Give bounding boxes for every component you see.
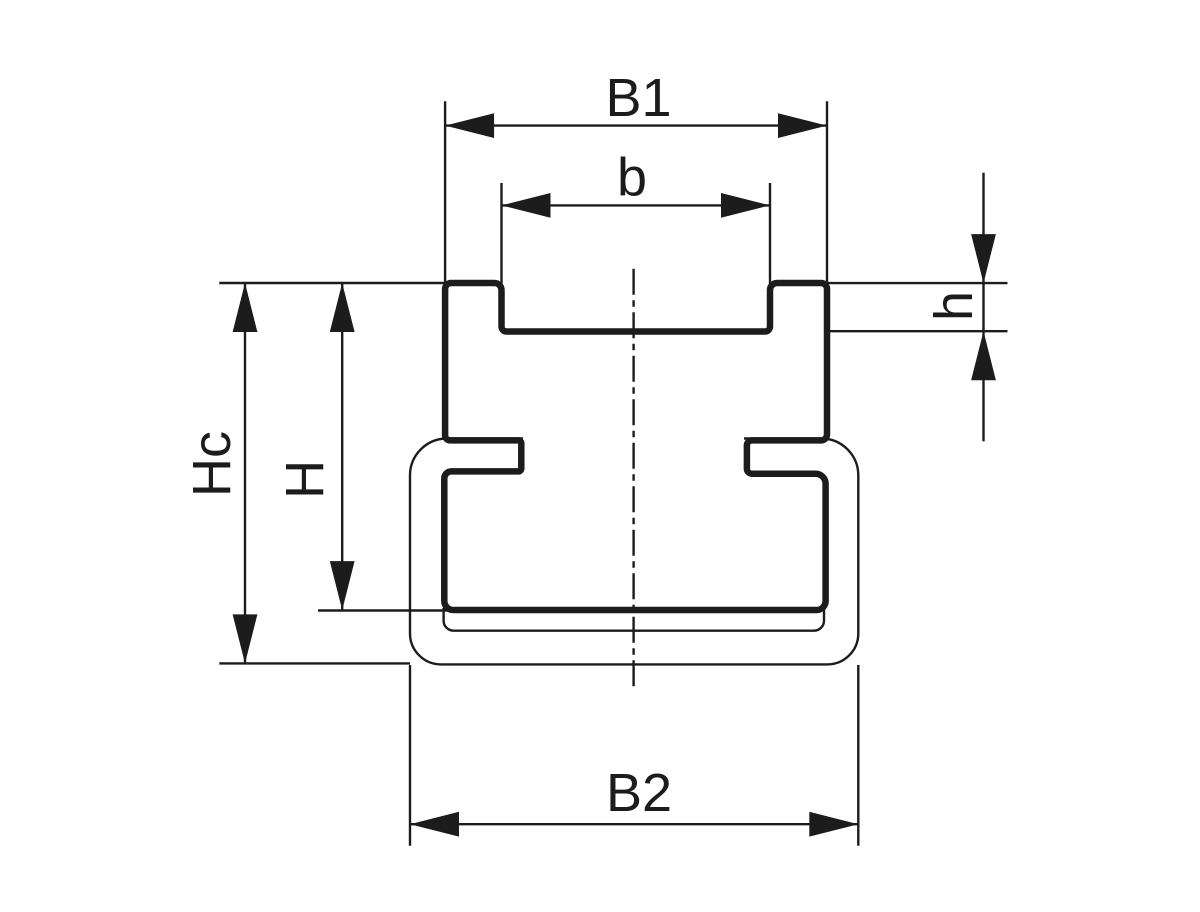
dimension h arrow lower [971, 331, 996, 380]
dimension B1 arrow right [778, 113, 827, 138]
dimension b line [502, 204, 771, 206]
dimension b arrow left [502, 193, 551, 218]
dimension B1 line [445, 124, 827, 126]
svg-text:h: h [924, 291, 984, 321]
dimension Hc extension line top [219, 282, 445, 284]
svg-text:Hc: Hc [182, 431, 242, 497]
dimension b extension line left [500, 183, 502, 284]
dimension h extension line top [828, 282, 1008, 284]
dimension H arrow top [330, 283, 355, 332]
dimension B2 line [410, 823, 858, 825]
dimension B1 extension line right [826, 101, 828, 283]
dimension Hc arrow bottom [233, 614, 258, 663]
dimension Hc arrow top [233, 283, 258, 332]
dimension h line [982, 173, 984, 441]
dimension B1 extension line left [444, 101, 446, 283]
steel rail outer contour [410, 439, 858, 665]
dimension H arrow bottom [330, 561, 355, 610]
dimension Hc line [244, 283, 246, 663]
svg-text:B2: B2 [606, 763, 672, 823]
dimension H line [341, 283, 343, 610]
svg-text:b: b [617, 147, 647, 207]
centerline [632, 269, 634, 688]
dimension Hc extension line bottom [219, 662, 410, 664]
dimension H extension line bottom [318, 609, 452, 611]
dimension B2 extension line left [409, 665, 411, 846]
svg-text:H: H [275, 460, 335, 499]
svg-text:B1: B1 [605, 68, 671, 128]
dimension h extension line bottom [828, 330, 1008, 332]
steel rail inner bottom [444, 608, 824, 631]
dimension B2 extension line right [857, 665, 859, 846]
dimension B2 arrow right [809, 812, 858, 837]
dimension B1 arrow left [445, 113, 494, 138]
dimension b arrow right [721, 193, 770, 218]
profile outline (plastic chain guide, thick) [444, 283, 827, 610]
dimension b extension line right [769, 183, 771, 284]
dimension h arrow upper [971, 234, 996, 283]
dimension B2 arrow left [410, 812, 459, 837]
